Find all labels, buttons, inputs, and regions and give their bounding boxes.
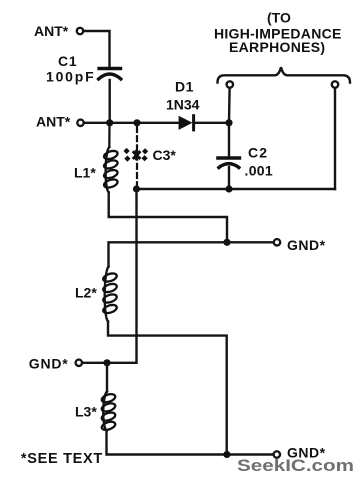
svg-text:EARPHONES): EARPHONES) <box>229 39 325 55</box>
diode D1 <box>179 116 229 130</box>
svg-text:GND*: GND* <box>29 356 69 372</box>
svg-text:.001: .001 <box>245 163 273 179</box>
svg-text:ANT*: ANT* <box>34 23 69 39</box>
svg-text:*SEE TEXT: *SEE TEXT <box>21 451 103 467</box>
wire L2 bottom to lower rail <box>108 322 227 455</box>
svg-text:C1: C1 <box>58 53 78 69</box>
junction node C3 top <box>133 119 140 126</box>
inductor L1 <box>103 126 119 193</box>
wire earphone right down <box>334 88 336 189</box>
terminal GND2 <box>76 360 82 366</box>
svg-text:D1: D1 <box>175 79 194 95</box>
capacitor C3 dashed leads <box>136 127 138 186</box>
terminal ANT1 <box>77 28 83 34</box>
svg-text:SeekIC.com: SeekIC.com <box>237 456 354 475</box>
terminal earphone right <box>332 81 338 87</box>
junction node ANT2/L1 <box>106 119 113 126</box>
junction node GND3 <box>223 451 230 458</box>
wire C3 bottom down to GND2 row <box>82 189 136 363</box>
wire node to C2 top <box>228 123 230 156</box>
wire GND1 stub <box>227 241 274 243</box>
wire GND2 to L3 <box>106 363 108 392</box>
junction node diode/earphone <box>225 119 232 126</box>
svg-text:C3*: C3* <box>153 147 177 163</box>
junction node C3 bottom <box>133 185 140 192</box>
wire bottom rail of earphone loop <box>137 188 336 190</box>
terminal GND1 <box>274 239 280 245</box>
svg-text:1N34: 1N34 <box>166 97 200 113</box>
terminal GND3 <box>274 451 280 457</box>
junction node GND2 <box>103 359 110 366</box>
svg-text:100pF: 100pF <box>46 69 95 85</box>
junction node GND1 <box>223 239 230 246</box>
svg-text:ANT*: ANT* <box>36 113 71 129</box>
terminal ANT2 <box>77 120 83 126</box>
svg-text:(TO: (TO <box>267 9 291 25</box>
wire L3 bottom rail <box>107 431 274 455</box>
svg-text:L2*: L2* <box>75 285 97 301</box>
wire L2 top <box>109 242 228 266</box>
inductor L3 <box>101 392 117 432</box>
wire C1 to node ANT2 <box>108 80 110 123</box>
junction node C2 bottom <box>225 185 232 192</box>
svg-text:L3*: L3* <box>75 404 97 420</box>
capacitor C2 <box>218 158 239 168</box>
wire ANT1 to C1 top <box>84 31 110 66</box>
trimmer capacitor C3 symbol <box>123 148 148 162</box>
svg-text:L1*: L1* <box>74 165 96 181</box>
svg-text:GND*: GND* <box>287 237 326 253</box>
capacitor C1 <box>99 69 121 80</box>
wire L1 bottom to GND1 node <box>109 193 227 243</box>
svg-text:C2: C2 <box>248 145 268 161</box>
terminal earphone left <box>227 81 233 87</box>
wire ANT2 row to diode <box>84 122 179 124</box>
brace to earphones <box>218 67 351 82</box>
wire C2 to bottom rail <box>228 167 230 189</box>
wire earphone left down <box>228 88 231 123</box>
inductor L2 <box>102 267 118 322</box>
